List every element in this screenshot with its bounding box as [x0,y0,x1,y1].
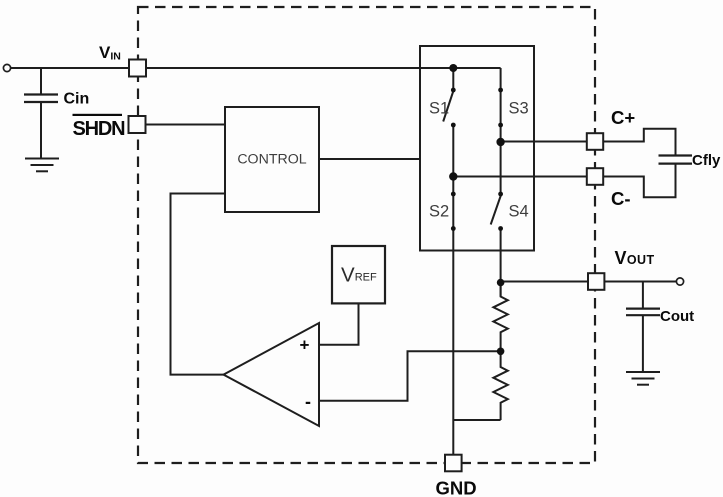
pin GND [445,455,462,472]
wire switch left column (S1 bottom through S2 to GND pin) [452,125,454,455]
wire CONTROL to switch network [319,158,420,160]
IC boundary dashed box [138,7,595,463]
svg-text:Cin: Cin [64,91,90,108]
wire switch right column (S3 closed) [500,68,502,195]
block CONTROL [225,107,319,212]
junction node C- [449,172,457,180]
contact S1 bottom [451,123,456,128]
input terminal [3,64,10,71]
wire Cin tap [40,68,42,94]
svg-text:C+: C+ [611,107,635,128]
contact S1 top [451,88,456,93]
wire VOUT node to pin [501,281,588,283]
svg-text:S1: S1 [429,100,449,118]
contact S2 bottom [451,226,456,231]
svg-text:SHDN: SHDN [73,118,126,140]
svg-text:+: + [300,336,310,355]
output terminal [676,278,683,285]
label SHDN with overline [73,114,126,140]
pin SHDN [129,116,146,133]
wire switch column S1 top [452,68,454,90]
resistor R2 [493,351,507,420]
ground (Cout) [626,372,660,385]
svg-text:-: - [305,392,311,412]
junction node C+ [496,138,504,146]
wire C+ node to pin [501,141,587,143]
wire feedback divider to op-amp minus input [319,351,501,400]
ground (Cin) [25,159,59,172]
wire R2 bottom to GND column [453,419,500,421]
svg-text:CONTROL: CONTROL [237,152,306,168]
wire Cout tap [642,282,644,308]
wire Cfly upper bracket [604,129,676,155]
wire VOUT pin to terminal [605,281,677,283]
pin C+ [587,133,603,150]
wire switch right column below S4 [500,229,502,297]
capacitor Cin [24,95,58,159]
pin VOUT [588,273,604,290]
switch network box [420,46,534,251]
svg-text:S2: S2 [429,203,449,221]
contact S3 top [498,88,503,93]
capacitor Cfly [659,156,693,164]
switch S4 blade (open) [491,196,501,225]
junction node VIN/S1 [449,64,457,72]
junction node VOUT [497,279,505,287]
op-amp U1 [224,323,320,426]
wire VIN input [11,67,129,69]
wire VREF to op-amp plus input [319,303,359,344]
resistor R1 [493,283,507,352]
block VREF [332,246,385,303]
junction node FB [497,348,505,356]
svg-text:Cout: Cout [660,308,694,325]
wire VIN rail to switch network [146,67,501,69]
wire C- node to pin [453,176,586,178]
capacitor Cout [626,309,660,372]
wire SHDN to CONTROL [146,124,225,126]
pin VIN [129,60,146,77]
contact S4 bottom [498,226,503,231]
svg-text:Cfly: Cfly [692,152,721,169]
contact S3 bottom [498,123,503,128]
svg-text:GND: GND [436,478,477,497]
contact S4 top [498,192,503,197]
wire op-amp output to CONTROL (feedback) [171,194,226,375]
svg-text:C-: C- [611,188,631,209]
wire Cfly lower bracket [604,165,676,198]
svg-text:S3: S3 [509,100,529,118]
contact S2 top [451,192,456,197]
svg-text:S4: S4 [509,203,529,221]
pin C- [587,168,603,185]
switch S1 blade (open) [443,91,453,122]
